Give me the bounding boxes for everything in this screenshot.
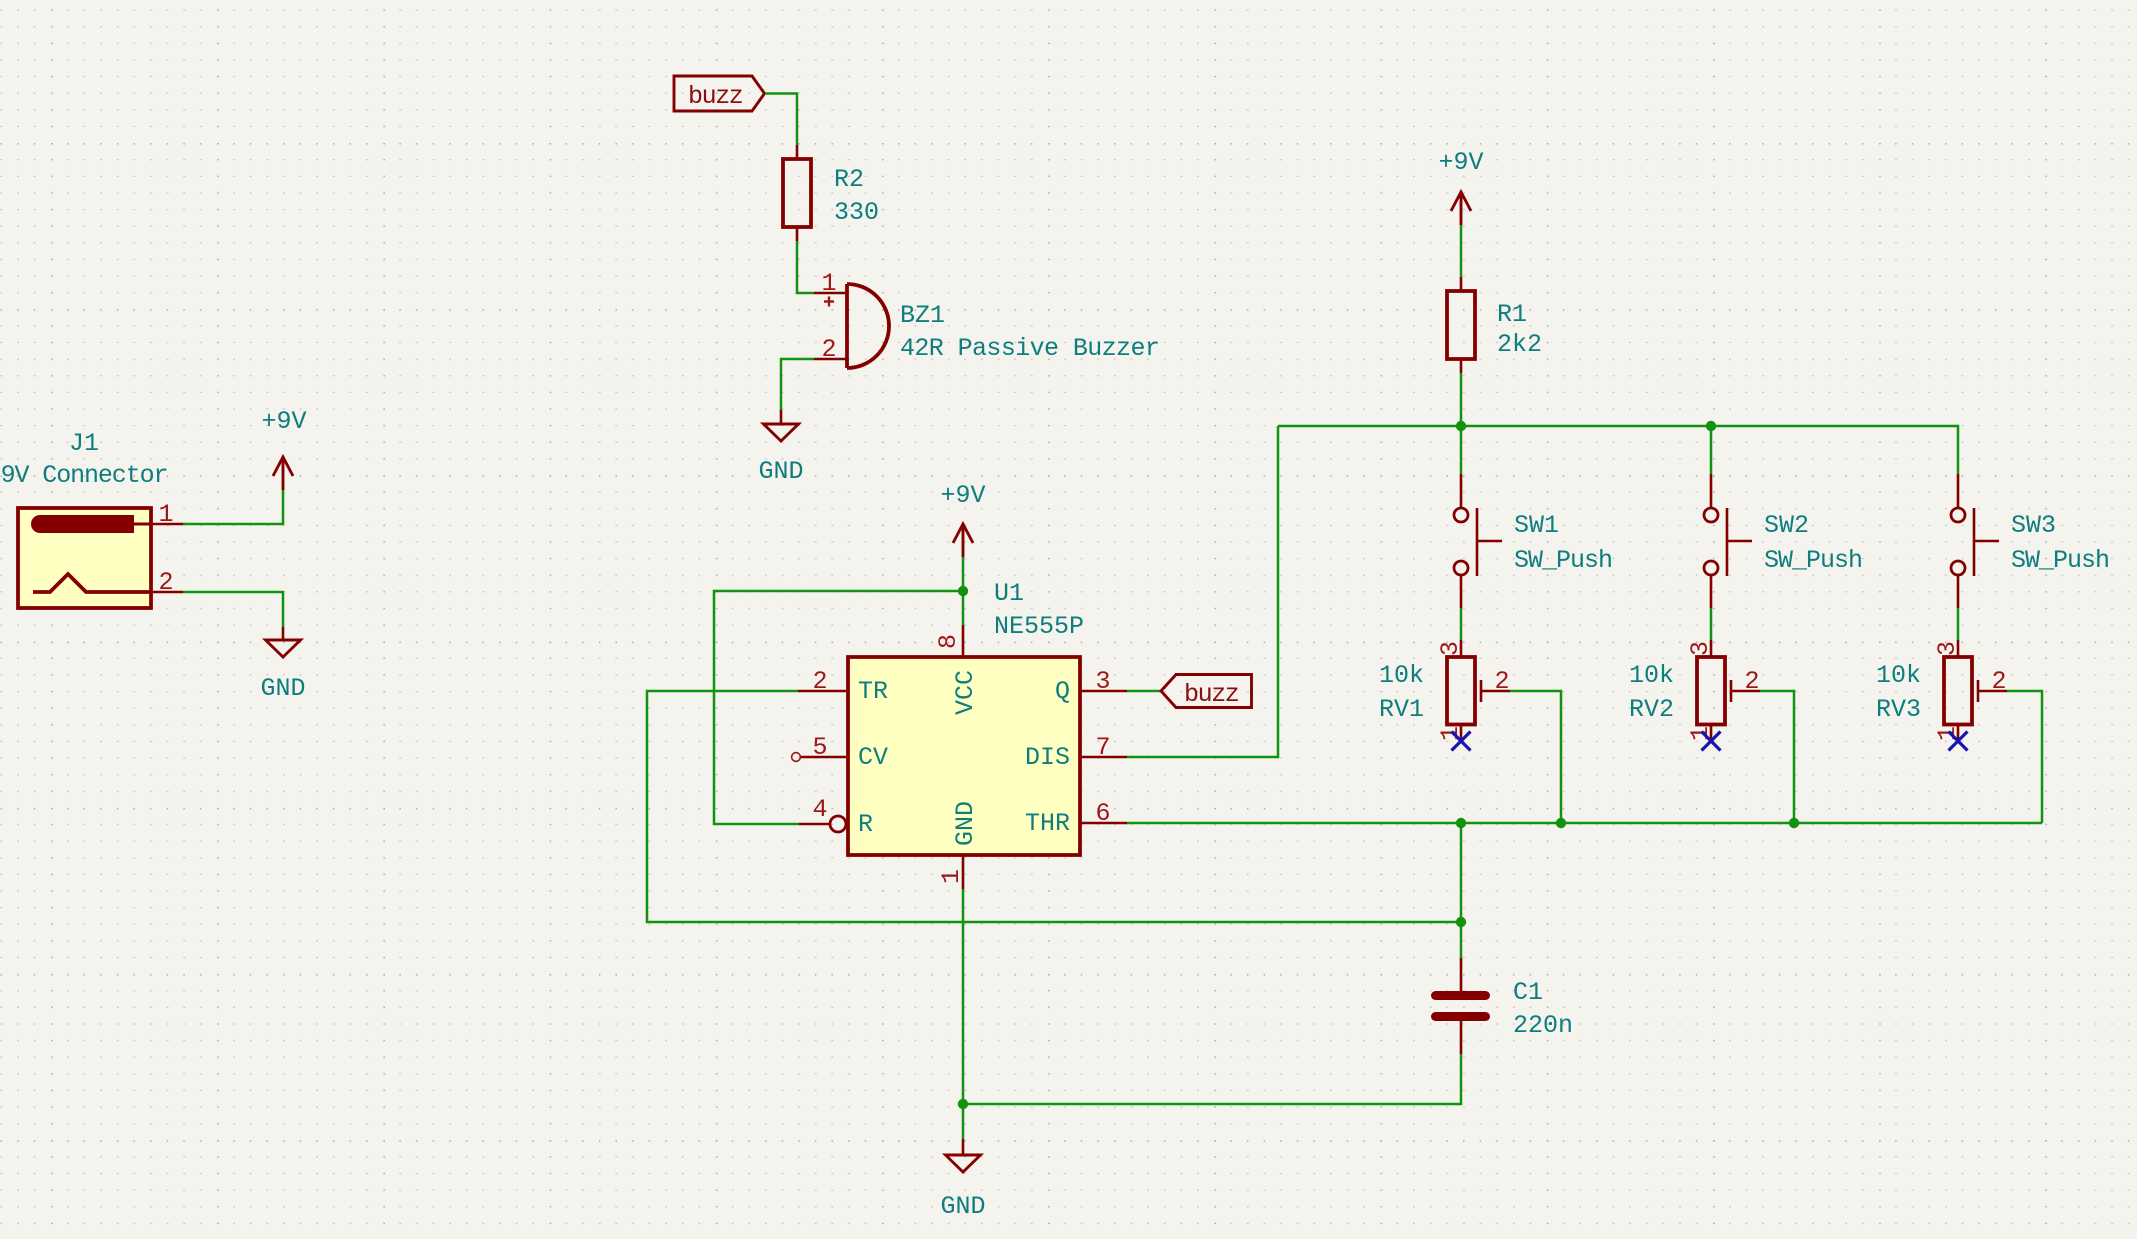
- svg-text:3: 3: [1686, 641, 1715, 656]
- svg-text:1: 1: [821, 269, 836, 298]
- power +9V (at R1): [1438, 148, 1483, 225]
- wire top bus to SW1: [1460, 426, 1463, 474]
- svg-text:+9V: +9V: [261, 407, 306, 436]
- U1 pin 4 R (inverted): [799, 795, 873, 839]
- U1 pin 5 CV (unconnected): [792, 733, 888, 772]
- svg-text:2k2: 2k2: [1497, 330, 1542, 359]
- svg-text:3: 3: [1933, 641, 1962, 656]
- svg-text:GND: GND: [951, 801, 980, 846]
- svg-text:2: 2: [821, 335, 836, 364]
- U1 pin 7 DIS: [1025, 733, 1127, 772]
- wire RV1 wiper to THR bus: [1510, 691, 1561, 823]
- svg-text:U1: U1: [994, 579, 1024, 608]
- wire SW3 to RV3: [1957, 608, 1960, 640]
- svg-text:220n: 220n: [1513, 1011, 1573, 1040]
- connector J1 9V Connector: [18, 508, 151, 608]
- wire R1 to top bus: [1460, 373, 1463, 426]
- BZ1 pin 1: [814, 269, 847, 298]
- power +9V (at J1): [261, 407, 306, 490]
- switch SW2 SW_Push: [1704, 474, 1752, 608]
- svg-text:RV2: RV2: [1629, 695, 1674, 724]
- ground GND (at U1 pin 1): [940, 1139, 985, 1221]
- svg-text:BZ1: BZ1: [900, 301, 945, 330]
- svg-text:R2: R2: [834, 165, 864, 194]
- svg-text:2: 2: [1991, 667, 2006, 696]
- svg-text:330: 330: [834, 198, 879, 227]
- wire DIS pin 7 to top bus: [1127, 426, 1278, 757]
- svg-text:+9V: +9V: [940, 481, 985, 510]
- potentiometer RV3 10k: [1944, 640, 2007, 741]
- U1 pin 2 TR: [798, 667, 888, 706]
- svg-text:R1: R1: [1497, 300, 1527, 329]
- J1 pin 2: [151, 568, 183, 597]
- wire U1 pin1 to ground node: [962, 889, 965, 1104]
- junction TR/THR/C1 node: [1456, 917, 1466, 927]
- svg-text:10k: 10k: [1629, 661, 1674, 690]
- wire top bus DIS net to switches: [1278, 426, 1958, 474]
- junction top bus at R1: [1456, 421, 1466, 431]
- svg-text:+9V: +9V: [1438, 148, 1483, 177]
- wire buzz label to R2: [765, 94, 797, 146]
- junction top bus at SW2: [1706, 421, 1716, 431]
- svg-text:buzz: buzz: [1184, 680, 1239, 709]
- wire VCC node to reset pin 4: [714, 591, 963, 824]
- wire +9V to R1: [1460, 225, 1463, 277]
- capacitor C1: [1431, 958, 1490, 1054]
- wire +9V to VCC node: [962, 557, 965, 591]
- svg-text:10k: 10k: [1876, 661, 1921, 690]
- wire J1 pin1 to +9V: [183, 490, 283, 524]
- svg-text:1: 1: [158, 500, 173, 529]
- svg-text:TR: TR: [858, 677, 888, 706]
- junction VCC node: [958, 586, 968, 596]
- global label buzz (input, at Q): [1161, 675, 1252, 710]
- wire J1 pin2 to GND: [183, 592, 283, 627]
- svg-text:THR: THR: [1025, 809, 1070, 838]
- wire SW1 to RV1: [1460, 608, 1463, 640]
- ground GND (at BZ1): [758, 410, 803, 486]
- svg-text:3: 3: [1436, 641, 1465, 656]
- wire RV2 wiper to THR bus: [1760, 691, 1794, 823]
- svg-text:4: 4: [812, 795, 827, 824]
- U1 pin 6 THR: [1025, 799, 1127, 838]
- no-connect RV1 pin 1: [1452, 732, 1471, 751]
- svg-text:SW_Push: SW_Push: [1514, 546, 1612, 575]
- svg-text:2: 2: [158, 568, 173, 597]
- U1 pin 1 GND (bottom): [937, 801, 980, 889]
- potentiometer RV1 10k: [1447, 640, 1510, 741]
- wire ground node down: [962, 1104, 965, 1139]
- svg-text:42R Passive Buzzer: 42R Passive Buzzer: [900, 334, 1159, 363]
- svg-text:SW3: SW3: [2011, 511, 2056, 540]
- svg-text:GND: GND: [260, 674, 305, 703]
- svg-text:SW_Push: SW_Push: [2011, 546, 2109, 575]
- svg-text:RV1: RV1: [1379, 695, 1424, 724]
- no-connect RV2 pin 1: [1702, 732, 1721, 751]
- wire THR bus down to C1 node: [1460, 823, 1463, 922]
- wire BZ1 pin2 to GND: [781, 359, 814, 410]
- global label buzz (output, top): [674, 76, 765, 111]
- wire top bus to SW2: [1710, 426, 1713, 474]
- junction ground node: [958, 1099, 968, 1109]
- power +9V (at U1 VCC): [940, 481, 985, 557]
- no-connect RV3 pin 1: [1949, 732, 1968, 751]
- svg-text:5: 5: [812, 733, 827, 762]
- svg-text:9V Connector: 9V Connector: [1, 461, 168, 490]
- svg-text:C1: C1: [1513, 978, 1543, 1007]
- wire R2 to BZ1 pin 1: [797, 241, 814, 293]
- wire THR bus: [1127, 822, 2042, 825]
- junction THR bus at RV2 drop: [1789, 818, 1799, 828]
- svg-text:8: 8: [934, 634, 963, 649]
- svg-text:NE555P: NE555P: [994, 612, 1084, 641]
- svg-text:CV: CV: [858, 743, 888, 772]
- potentiometer RV2 10k: [1697, 640, 1760, 741]
- svg-text:DIS: DIS: [1025, 743, 1070, 772]
- svg-text:GND: GND: [940, 1192, 985, 1221]
- wire VCC node to pin 8: [962, 591, 965, 625]
- svg-text:2: 2: [812, 667, 827, 696]
- svg-text:SW2: SW2: [1764, 511, 1809, 540]
- U1 pin 8 VCC (top): [934, 625, 980, 715]
- junction THR bus at RV1 drop: [1556, 818, 1566, 828]
- svg-text:7: 7: [1095, 733, 1110, 762]
- svg-text:6: 6: [1095, 799, 1110, 828]
- resistor R2: [783, 145, 811, 241]
- svg-text:J1: J1: [69, 429, 99, 458]
- svg-text:10k: 10k: [1379, 661, 1424, 690]
- wire C1 node to capacitor: [1460, 922, 1463, 958]
- svg-text:SW1: SW1: [1514, 511, 1559, 540]
- J1 pin 1: [151, 500, 183, 529]
- svg-text:Q: Q: [1055, 677, 1070, 706]
- svg-text:2: 2: [1744, 667, 1759, 696]
- switch SW1 SW_Push: [1454, 474, 1502, 608]
- svg-text:GND: GND: [758, 457, 803, 486]
- BZ1 pin 2: [814, 335, 847, 364]
- wire TR pin 2 to THR node: [647, 691, 1461, 922]
- svg-text:R: R: [858, 810, 873, 839]
- U1 pin 3 Q: [1055, 667, 1127, 706]
- svg-text:3: 3: [1095, 667, 1110, 696]
- IC U1 NE555P body: [848, 657, 1080, 855]
- svg-text:1: 1: [937, 869, 966, 884]
- ground GND (at J1): [260, 627, 305, 703]
- wire SW2 to RV2: [1710, 608, 1713, 640]
- wire C1 to ground node: [963, 1054, 1461, 1104]
- svg-text:2: 2: [1494, 667, 1509, 696]
- resistor R1: [1447, 277, 1475, 373]
- junction THR bus at x=1461: [1456, 818, 1466, 828]
- svg-text:buzz: buzz: [688, 82, 743, 111]
- buzzer BZ1: [824, 284, 889, 368]
- wire Q pin 3 to buzz label: [1127, 690, 1161, 693]
- svg-text:SW_Push: SW_Push: [1764, 546, 1862, 575]
- svg-text:VCC: VCC: [951, 670, 980, 715]
- wire RV3 wiper to THR bus: [2007, 691, 2042, 823]
- switch SW3 SW_Push: [1951, 474, 1999, 608]
- svg-text:RV3: RV3: [1876, 695, 1921, 724]
